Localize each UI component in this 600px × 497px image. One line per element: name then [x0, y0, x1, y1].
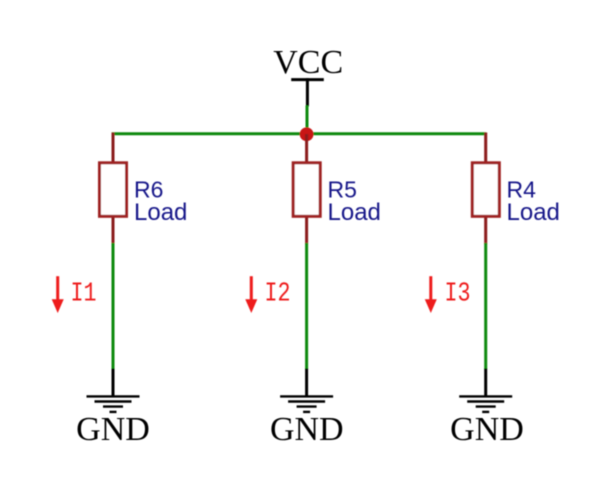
ground symbol right — [459, 396, 512, 412]
junction node dot — [300, 127, 314, 141]
wire VCC to bus (green) — [306, 106, 309, 135]
wire ground pin middle (black) — [305, 369, 308, 397]
wire R6 lower stub (dark red) — [112, 218, 115, 245]
svg-text:GND: GND — [76, 411, 150, 448]
current arrow I2 — [245, 276, 257, 313]
svg-text:I1: I1 — [71, 279, 97, 309]
resistor R6 — [100, 163, 127, 217]
svg-text:Load: Load — [507, 199, 560, 226]
wire bus to R4 (dark red) — [484, 133, 487, 163]
wire R5 to ground (green) — [305, 243, 308, 369]
resistor R5 — [293, 163, 320, 217]
ground symbol middle — [280, 396, 333, 412]
svg-text:Load: Load — [328, 199, 381, 226]
wire junction to R5 (dark red) — [305, 134, 308, 162]
svg-text:GND: GND — [270, 411, 344, 448]
svg-text:VCC: VCC — [273, 44, 343, 81]
wire R5 lower stub (dark red) — [305, 218, 308, 245]
svg-text:I2: I2 — [265, 279, 291, 309]
wire R6 to ground (green) — [112, 243, 115, 369]
wire ground pin right (black) — [484, 369, 487, 397]
wire bus to R6 (dark red) — [112, 133, 115, 163]
svg-text:GND: GND — [450, 411, 524, 448]
wire ground pin left (black) — [112, 369, 115, 397]
svg-text:I3: I3 — [445, 279, 471, 309]
current arrow I1 — [52, 276, 64, 313]
wire horizontal bus (green) — [112, 132, 487, 135]
wire R4 to ground (green) — [484, 243, 487, 369]
wire VCC pin (black) — [306, 78, 309, 106]
power symbol VCC (T bar) — [291, 78, 324, 81]
ground symbol left — [87, 396, 140, 412]
current arrow I3 — [425, 276, 437, 313]
svg-text:Load: Load — [134, 199, 187, 226]
resistor R4 — [472, 163, 499, 217]
wire R4 lower stub (dark red) — [484, 218, 487, 245]
